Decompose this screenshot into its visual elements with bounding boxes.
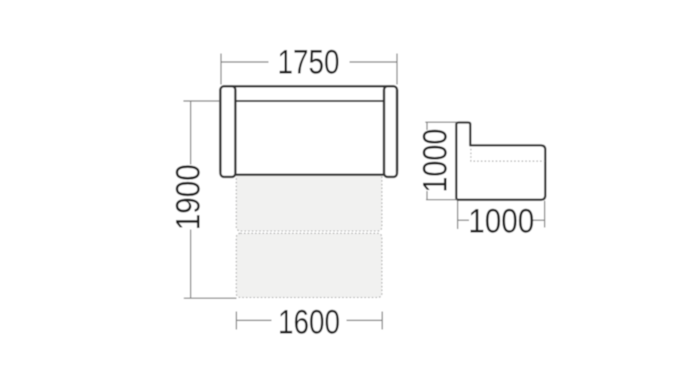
bottom dimension 1000 extension line left [457,201,459,229]
sofa side profile (side view) [456,123,545,200]
dimension 1750 line left segment [221,61,269,63]
dimension 1600 extension line right [381,312,383,330]
bottom dimension 1000 line left segment [458,219,469,221]
dimension 1900 extension line top [183,100,219,102]
dimension 1600 line left segment [236,319,271,321]
side dimension 1000 line upper segment [426,122,428,130]
dimension 1750 extension line right [396,54,398,85]
svg-text:1900: 1900 [170,164,208,230]
svg-text:1000: 1000 [417,129,455,193]
svg-text:1750: 1750 [278,43,340,81]
dimension 1600 extension line left [235,312,237,330]
dimension 1900 line upper segment [190,101,192,165]
backrest inner line [235,100,384,102]
side dimension 1000 extension line top [425,121,457,123]
seat cushion dotted line (side view) [471,149,545,161]
left armrest [220,86,235,177]
bed fold-out section 2 (top view) [236,233,382,297]
bottom dimension 1000 line right segment [533,219,545,221]
dimension 1600 line right segment [347,319,383,321]
bottom dimension 1000 extension line right [544,201,546,228]
dimension 1750 extension line left [220,54,222,85]
bed fold-out section 1 (top view) [236,172,382,231]
svg-text:1600: 1600 [278,304,340,342]
sofa body outline (top view) [220,86,397,174]
svg-text:1000: 1000 [468,202,534,240]
dimension 1900 extension line bottom [184,297,237,299]
right armrest [384,86,397,177]
side dimension 1000 extension line bottom [426,199,457,201]
dimension 1750 line right segment [350,61,398,63]
side dimension 1000 line lower segment [426,191,428,200]
dimension 1900 line lower segment [190,230,192,299]
